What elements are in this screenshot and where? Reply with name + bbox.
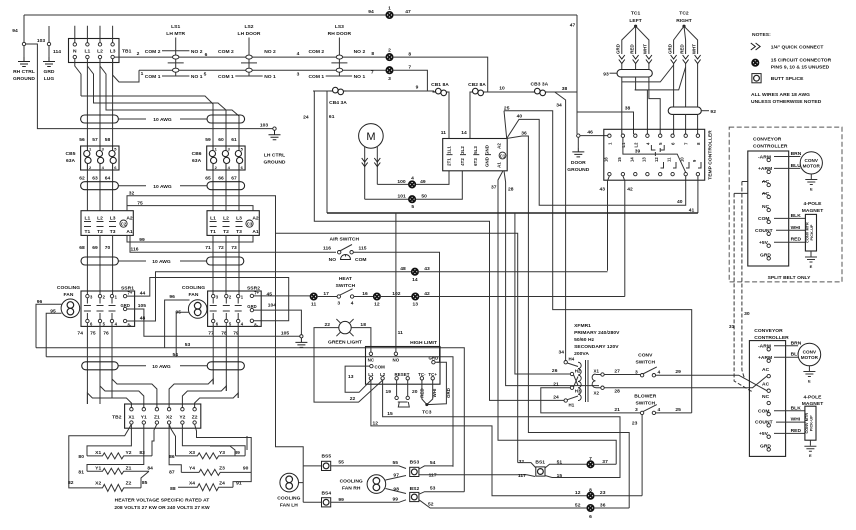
svg-text:34: 34	[556, 103, 562, 109]
RH ctrl ground	[23, 46, 25, 57]
svg-text:X1: X1	[594, 369, 600, 374]
svg-text:88: 88	[170, 486, 176, 492]
svg-text:26: 26	[552, 368, 558, 374]
svg-text:62: 62	[79, 176, 85, 182]
svg-text:83: 83	[139, 450, 145, 456]
svg-text:L3: L3	[236, 216, 242, 222]
svg-text:8-: 8-	[254, 322, 258, 327]
svg-text:36: 36	[600, 502, 606, 508]
butt splice BS2	[410, 492, 419, 501]
TC1 wires to TC terminals	[622, 77, 660, 134]
svg-text:Y3: Y3	[219, 450, 225, 456]
butt splice BS5	[322, 461, 331, 470]
svg-text:28: 28	[508, 187, 514, 193]
svg-text:1/4" QUICK CONNECT: 1/4" QUICK CONNECT	[771, 45, 824, 51]
svg-text:BS5: BS5	[321, 453, 331, 459]
svg-text:GRD: GRD	[121, 303, 130, 308]
svg-text:76: 76	[103, 331, 109, 337]
svg-text:6: 6	[205, 52, 208, 58]
svg-text:Y1: Y1	[95, 466, 101, 472]
conveyor motor (upper)	[800, 152, 822, 174]
svg-text:E: E	[808, 379, 811, 384]
svg-text:A1: A1	[252, 229, 259, 235]
svg-text:TB1: TB1	[122, 49, 132, 55]
svg-text:Z2: Z2	[126, 481, 132, 487]
svg-text:L1: L1	[368, 372, 374, 377]
svg-text:39: 39	[635, 148, 641, 154]
svg-text:23: 23	[632, 421, 638, 427]
svg-text:38: 38	[625, 106, 631, 112]
limit switch LS2 LH DOOR	[218, 24, 276, 80]
svg-text:GREEN LIGHT: GREEN LIGHT	[328, 340, 362, 346]
svg-text:CB1 8A: CB1 8A	[431, 82, 449, 88]
splice 8 : 12 / 23	[587, 493, 593, 499]
svg-text:4-POLE: 4-POLE	[804, 395, 823, 401]
circuit breaker CB1 8A	[433, 88, 450, 95]
svg-text:43: 43	[424, 266, 430, 272]
svg-text:105: 105	[138, 303, 147, 309]
svg-text:10: 10	[680, 157, 685, 162]
svg-text:75: 75	[90, 331, 96, 337]
svg-text:117: 117	[518, 473, 526, 479]
svg-text:200VA: 200VA	[574, 351, 589, 357]
svg-text:M: M	[366, 131, 375, 143]
wires contactors down to AWG row 3 and SSRs	[87, 235, 112, 296]
splice 3	[386, 67, 392, 73]
svg-text:CONV: CONV	[803, 350, 817, 355]
svg-text:32: 32	[519, 459, 525, 465]
svg-text:LEFT: LEFT	[629, 18, 641, 24]
svg-text:NC: NC	[762, 394, 770, 400]
svg-text:NO 2: NO 2	[354, 49, 366, 55]
svg-text:NC: NC	[368, 357, 375, 362]
svg-text:GRD: GRD	[667, 44, 672, 54]
svg-text:AC: AC	[762, 382, 770, 388]
svg-text:BS2: BS2	[410, 486, 420, 492]
svg-text:SWITCH: SWITCH	[636, 360, 656, 366]
wire 40 from C1 A2	[507, 119, 686, 205]
svg-text:LH MTR: LH MTR	[166, 31, 185, 37]
svg-text:4-POLE: 4-POLE	[804, 201, 823, 207]
wire L1 column	[86, 59, 88, 146]
limit switch LS1 LH MTR	[145, 24, 203, 80]
svg-text:COM 1: COM 1	[308, 74, 324, 80]
svg-text:COM: COM	[355, 257, 367, 263]
svg-text:47: 47	[570, 23, 576, 29]
svg-text:22: 22	[350, 396, 356, 402]
wire 23 below blower 3	[641, 415, 643, 496]
svg-text:L1: L1	[210, 216, 216, 222]
svg-text:Z2: Z2	[192, 415, 198, 421]
wire 14	[469, 92, 471, 139]
svg-text:CB5: CB5	[66, 151, 76, 157]
svg-text:T2: T2	[223, 229, 229, 235]
wire 47 vertical to door ground	[576, 15, 578, 134]
svg-text:15: 15	[617, 157, 622, 162]
svg-text:L2: L2	[380, 372, 386, 377]
wire 38 branch to TC term 3	[577, 112, 634, 134]
svg-text:Y2: Y2	[125, 450, 131, 456]
svg-text:102: 102	[392, 291, 401, 297]
wire 13 loop COM to L1	[345, 366, 371, 392]
svg-text:61: 61	[329, 114, 335, 120]
svg-text:H1: H1	[569, 403, 575, 408]
svg-text:13: 13	[413, 302, 419, 308]
svg-text:T1: T1	[210, 229, 216, 235]
svg-text:12: 12	[654, 157, 659, 162]
svg-text:67: 67	[231, 176, 237, 182]
svg-text:FAN RH: FAN RH	[342, 485, 361, 491]
svg-text:SECONDARY 120V: SECONDARY 120V	[574, 344, 619, 350]
svg-text:L3: L3	[110, 49, 116, 55]
svg-text:DOOR: DOOR	[571, 160, 586, 166]
wire 24	[314, 91, 565, 400]
svg-text:COM 1: COM 1	[218, 74, 234, 80]
circuit breaker CB4 3A	[330, 87, 347, 94]
svg-text:COM: COM	[375, 364, 386, 369]
wire 9 feeder bus	[313, 90, 434, 92]
svg-text:103: 103	[37, 38, 46, 44]
svg-text:48: 48	[400, 266, 406, 272]
svg-text:Y4: Y4	[189, 466, 195, 472]
svg-text:117: 117	[429, 473, 437, 479]
wire L3 column	[112, 59, 114, 146]
svg-text:GRD: GRD	[247, 304, 256, 309]
svg-text:RED: RED	[791, 237, 802, 243]
svg-text:5L3: 5L3	[473, 146, 478, 154]
svg-text:94: 94	[12, 28, 18, 34]
svg-text:L2: L2	[97, 49, 103, 55]
svg-text:50: 50	[421, 194, 427, 200]
wire 21 H3 to blower switch	[541, 388, 641, 413]
svg-text:BRN: BRN	[791, 151, 802, 157]
svg-text:72: 72	[218, 245, 224, 251]
svg-text:NO 1: NO 1	[354, 74, 366, 80]
svg-text:68: 68	[79, 245, 85, 251]
svg-text:CB2 8A: CB2 8A	[468, 82, 486, 88]
svg-text:53: 53	[430, 485, 436, 491]
svg-text:16: 16	[362, 291, 368, 297]
svg-text:X4: X4	[189, 481, 195, 487]
10 AWG bundle row 1	[81, 115, 245, 123]
svg-text:HIGH LIMIT: HIGH LIMIT	[410, 340, 437, 346]
svg-text:T2: T2	[97, 229, 103, 235]
svg-text:63A: 63A	[66, 158, 76, 164]
svg-text:115: 115	[358, 246, 366, 252]
transformer XFMR1 symbol	[564, 361, 567, 364]
svg-text:14: 14	[412, 277, 418, 283]
wire air COM to high limit GRD	[353, 252, 439, 362]
svg-text:GRD: GRD	[616, 44, 621, 54]
svg-text:L1: L1	[84, 216, 90, 222]
svg-text:E: E	[810, 187, 813, 192]
wire 38 to 47 vertical	[547, 91, 577, 93]
svg-text:LS1: LS1	[171, 24, 180, 30]
svg-text:24: 24	[303, 115, 309, 121]
svg-text:66: 66	[218, 176, 224, 182]
svg-text:15: 15	[557, 473, 563, 479]
svg-text:SWITCH: SWITCH	[636, 401, 656, 407]
svg-text:10 AWG: 10 AWG	[152, 364, 171, 370]
svg-text:Z4: Z4	[219, 481, 225, 487]
10 AWG bundle row 4	[82, 362, 245, 370]
svg-text:LS2: LS2	[244, 24, 253, 30]
circuit breaker CB2 8A	[470, 88, 487, 95]
svg-text:98: 98	[393, 486, 399, 492]
svg-text:8: 8	[371, 51, 374, 57]
svg-text:92: 92	[710, 109, 716, 115]
butt splice BS4	[322, 498, 331, 507]
contactor C3	[207, 211, 259, 236]
svg-text:116: 116	[323, 246, 331, 252]
svg-text:GRD: GRD	[428, 355, 438, 360]
wire 43 TC to splice 14 row	[608, 176, 610, 271]
svg-text:C1: C1	[500, 154, 506, 159]
heater resistor bank right	[169, 424, 251, 492]
svg-text:MOTOR: MOTOR	[803, 164, 821, 169]
cable bundle 92	[668, 107, 701, 114]
svg-text:5: 5	[204, 71, 207, 77]
TB2 feeders stepping in	[87, 393, 131, 407]
svg-text:X2: X2	[95, 481, 101, 487]
svg-text:94: 94	[368, 9, 374, 15]
svg-text:X2: X2	[166, 415, 172, 421]
svg-text:40: 40	[517, 114, 523, 120]
svg-text:14: 14	[461, 130, 467, 136]
svg-text:TC1: TC1	[631, 11, 641, 17]
svg-text:CONV MTR: CONV MTR	[805, 413, 809, 434]
svg-text:BUTT SPLICE: BUTT SPLICE	[771, 76, 804, 82]
splice 1 on top bus	[386, 12, 392, 18]
wires SSR down to AWG row 4	[87, 323, 238, 404]
svg-text:GND: GND	[484, 145, 489, 155]
svg-text:BLU: BLU	[791, 163, 802, 169]
svg-text:28: 28	[614, 389, 620, 395]
svg-text:71: 71	[205, 245, 211, 251]
svg-text:CB6: CB6	[192, 151, 202, 157]
svg-text:CONVEYOR: CONVEYOR	[753, 137, 782, 143]
svg-text:RH DOOR: RH DOOR	[328, 31, 352, 37]
svg-text:103: 103	[260, 123, 269, 129]
svg-text:86: 86	[169, 454, 175, 460]
svg-text:82: 82	[68, 480, 74, 486]
svg-text:99: 99	[393, 496, 399, 502]
svg-text:WHT: WHT	[691, 44, 696, 54]
svg-text:96: 96	[169, 294, 175, 300]
svg-text:1: 1	[141, 71, 144, 77]
svg-text:11: 11	[441, 130, 446, 136]
svg-text:7: 7	[371, 70, 374, 76]
svg-text:HEATER VOLTAGE SPECIFIC RATED: HEATER VOLTAGE SPECIFIC RATED AT	[115, 498, 210, 504]
circuit breaker CB3 3A	[532, 88, 549, 95]
svg-text:UNLESS OTHERWISE NOTED: UNLESS OTHERWISE NOTED	[751, 99, 822, 105]
wire 37 from C1 A1	[498, 171, 616, 465]
svg-text:COM 2: COM 2	[308, 49, 324, 55]
svg-text:LS3: LS3	[335, 24, 344, 30]
svg-text:23: 23	[600, 490, 606, 496]
svg-text:2: 2	[137, 51, 140, 57]
svg-text:L2: L2	[223, 216, 229, 222]
svg-text:CONV MTR: CONV MTR	[806, 222, 810, 243]
svg-text:A2: A2	[497, 143, 502, 149]
svg-text:70: 70	[105, 245, 111, 251]
svg-text:10 AWG: 10 AWG	[153, 184, 172, 190]
bus wire 11/41	[327, 212, 698, 214]
wire 15 from L2	[383, 380, 620, 478]
svg-text:19: 19	[385, 389, 391, 395]
svg-text:NO 1: NO 1	[264, 74, 276, 80]
svg-text:A2: A2	[252, 216, 259, 222]
terminal block TB1	[69, 39, 120, 63]
wire 9 to CB4/CB1	[393, 70, 428, 91]
svg-text:63A: 63A	[192, 158, 202, 164]
svg-text:COM 2: COM 2	[145, 49, 161, 55]
heater resistor bank left	[68, 424, 157, 491]
svg-text:3: 3	[337, 301, 340, 307]
svg-text:12: 12	[575, 490, 581, 496]
svg-text:4: 4	[658, 369, 661, 375]
svg-text:COM 2: COM 2	[218, 49, 234, 55]
svg-text:L2: L2	[633, 142, 638, 148]
svg-text:46: 46	[587, 130, 593, 136]
svg-text:10 AWG: 10 AWG	[152, 259, 171, 265]
svg-text:FAN: FAN	[189, 292, 199, 298]
svg-text:X3: X3	[189, 450, 195, 456]
svg-text:PINS 9, 10 & 15 UNUSED: PINS 9, 10 & 15 UNUSED	[771, 65, 830, 71]
svg-text:RIGHT: RIGHT	[676, 18, 691, 24]
svg-text:NO: NO	[329, 257, 337, 263]
svg-text:13: 13	[348, 374, 354, 380]
svg-text:25: 25	[675, 407, 681, 413]
node 94/103 junction	[23, 15, 25, 42]
wire top bus 94/47	[24, 14, 577, 16]
svg-text:81: 81	[78, 469, 84, 475]
wire 95 LH	[46, 313, 61, 357]
splice 2	[386, 54, 392, 60]
LH ctrl ground node	[273, 127, 276, 130]
nets 30 / 31 dash verticals	[742, 182, 745, 379]
svg-text:8-: 8-	[128, 323, 132, 328]
svg-text:CONV: CONV	[638, 353, 653, 359]
svg-text:4: 4	[351, 301, 354, 307]
svg-text:69: 69	[92, 245, 98, 251]
svg-text:X2: X2	[594, 391, 600, 396]
svg-text:WHT: WHT	[643, 44, 648, 54]
svg-text:E: E	[809, 453, 812, 458]
svg-text:RED: RED	[679, 44, 684, 53]
svg-text:101: 101	[397, 194, 406, 200]
svg-text:A1: A1	[126, 229, 133, 235]
svg-text:3: 3	[388, 76, 391, 82]
terminal block TB2	[125, 404, 201, 428]
wire 96 RH	[165, 300, 190, 348]
svg-text:6: 6	[589, 514, 592, 520]
svg-text:56: 56	[79, 137, 85, 143]
svg-text:6T3: 6T3	[473, 158, 478, 166]
svg-text:12: 12	[374, 302, 380, 308]
svg-text:GND: GND	[484, 157, 489, 167]
svg-text:63: 63	[92, 176, 98, 182]
butt splice BS1	[536, 467, 545, 476]
wire 11 from bus to NO	[395, 213, 397, 352]
svg-text:10 AWG: 10 AWG	[153, 117, 172, 123]
grd lug	[48, 26, 50, 57]
svg-text:TC+: TC+	[428, 372, 437, 377]
svg-text:COOLING: COOLING	[182, 285, 205, 291]
svg-text:116: 116	[130, 247, 138, 253]
svg-text:12: 12	[373, 420, 379, 426]
contactor C2	[81, 211, 133, 236]
splice 52 / 36 / 6	[587, 505, 593, 511]
wire 8 to CB2	[393, 57, 488, 92]
svg-text:1: 1	[388, 6, 391, 12]
svg-text:CB4 3A: CB4 3A	[329, 100, 347, 106]
svg-text:7+: 7+	[254, 290, 259, 295]
svg-text:97: 97	[393, 472, 399, 478]
svg-text:GROUND: GROUND	[567, 167, 589, 173]
reset button	[397, 380, 408, 396]
svg-text:9: 9	[416, 85, 419, 91]
wire 11	[448, 92, 450, 139]
cable bundle 93	[617, 70, 652, 78]
svg-text:N: N	[73, 49, 77, 55]
svg-text:4: 4	[658, 407, 661, 413]
svg-text:11: 11	[667, 157, 672, 162]
svg-text:CONTROLLER: CONTROLLER	[753, 144, 788, 150]
butt splice BS3	[410, 467, 419, 476]
svg-text:LUG: LUG	[44, 76, 55, 82]
svg-text:55: 55	[338, 460, 344, 466]
svg-text:21: 21	[553, 382, 559, 388]
svg-text:55: 55	[393, 460, 399, 466]
svg-text:50/60 Hz: 50/60 Hz	[574, 337, 594, 343]
svg-text:25: 25	[504, 105, 510, 111]
svg-text:TC-: TC-	[418, 372, 426, 377]
svg-text:93: 93	[603, 72, 609, 78]
wire 25 from C1 A2 to blower	[504, 111, 692, 413]
svg-text:COM 1: COM 1	[145, 74, 161, 80]
svg-text:HEAT: HEAT	[339, 276, 352, 282]
svg-text:24: 24	[553, 395, 559, 401]
svg-text:C3: C3	[247, 222, 253, 227]
svg-text:85: 85	[142, 480, 148, 486]
svg-text:Z3: Z3	[219, 466, 225, 472]
svg-text:MAGNET: MAGNET	[802, 208, 824, 214]
wire 95 RH	[176, 312, 189, 357]
svg-text:17: 17	[323, 291, 329, 297]
svg-text:31: 31	[729, 324, 735, 330]
svg-text:3: 3	[635, 369, 638, 375]
limit switch LS3 RH DOOR	[308, 24, 365, 80]
svg-text:13: 13	[641, 157, 646, 162]
svg-text:SPLIT BELT ONLY: SPLIT BELT ONLY	[768, 275, 812, 281]
svg-text:CONV: CONV	[805, 158, 819, 163]
svg-text:Z1: Z1	[126, 466, 132, 472]
cooling fan LH	[280, 473, 299, 492]
svg-text:208 VOLTS 27 KW OR 240 VOLTS 2: 208 VOLTS 27 KW OR 240 VOLTS 27 KW	[114, 505, 210, 511]
high limit box	[366, 347, 441, 385]
svg-text:T3: T3	[110, 229, 116, 235]
svg-text:74: 74	[77, 331, 83, 337]
svg-text:16: 16	[603, 157, 608, 162]
svg-text:XFMR1: XFMR1	[574, 323, 591, 329]
wire 42 TC to heat row	[623, 176, 625, 297]
svg-text:MOTOR: MOTOR	[801, 355, 819, 360]
svg-text:58: 58	[105, 137, 111, 143]
internal wire 39	[623, 137, 686, 172]
svg-text:ALL WIRES ARE 18 AWG: ALL WIRES ARE 18 AWG	[751, 92, 810, 98]
svg-text:52: 52	[428, 502, 434, 508]
